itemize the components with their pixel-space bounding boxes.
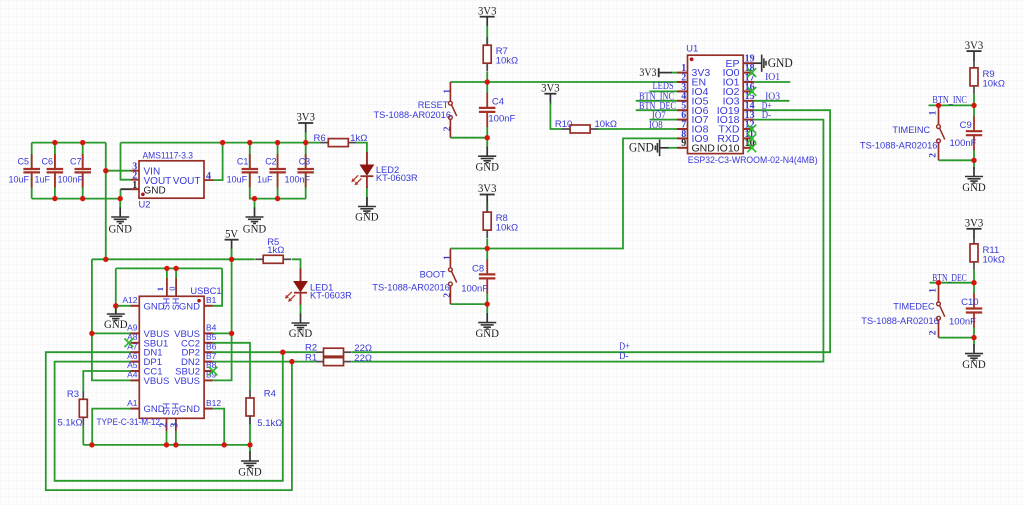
svg-text:A1: A1 <box>127 398 138 408</box>
svg-text:1uF: 1uF <box>257 175 273 185</box>
svg-text:10kΩ: 10kΩ <box>496 56 518 67</box>
svg-text:B9: B9 <box>206 370 217 380</box>
svg-text:B1: B1 <box>206 295 217 305</box>
svg-text:GND: GND <box>289 326 313 340</box>
svg-text:GND: GND <box>179 404 200 415</box>
svg-text:TS-1088-AR02016: TS-1088-AR02016 <box>372 283 450 293</box>
svg-text:ESP32-C3-WROOM-02-N4(4MB): ESP32-C3-WROOM-02-N4(4MB) <box>688 155 818 166</box>
svg-text:1: 1 <box>928 288 938 293</box>
svg-text:2: 2 <box>443 126 453 131</box>
svg-text:10kΩ: 10kΩ <box>595 119 617 130</box>
svg-text:AMS1117-3.3: AMS1117-3.3 <box>143 149 194 160</box>
svg-text:GND: GND <box>238 465 262 479</box>
svg-text:A4: A4 <box>127 370 138 380</box>
svg-text:R10: R10 <box>555 119 572 130</box>
svg-text:9: 9 <box>681 138 686 149</box>
svg-text:1: 1 <box>132 180 137 191</box>
svg-text:TS-1088-AR02016: TS-1088-AR02016 <box>861 316 939 326</box>
svg-text:C6: C6 <box>42 156 54 166</box>
svg-text:GND: GND <box>475 326 499 340</box>
svg-text:GND: GND <box>243 222 267 236</box>
svg-text:GND: GND <box>768 56 793 70</box>
svg-text:TS-1088-AR02016: TS-1088-AR02016 <box>860 141 938 151</box>
svg-text:TIMEDEC: TIMEDEC <box>893 302 935 312</box>
svg-text:IO8: IO8 <box>649 120 663 131</box>
svg-text:10uF: 10uF <box>227 175 248 185</box>
svg-text:A12: A12 <box>122 295 137 305</box>
svg-text:1: 1 <box>155 287 165 291</box>
svg-text:TS-1088-AR02016: TS-1088-AR02016 <box>374 110 452 120</box>
svg-text:LEDS: LEDS <box>653 81 674 92</box>
svg-text:100nF: 100nF <box>488 113 515 124</box>
svg-text:3V3: 3V3 <box>639 65 656 79</box>
svg-text:TIMEINC: TIMEINC <box>892 125 930 135</box>
svg-text:VBUS: VBUS <box>174 376 200 387</box>
svg-text:U1: U1 <box>686 43 698 54</box>
svg-text:2: 2 <box>159 423 170 428</box>
svg-text:C7: C7 <box>70 156 82 166</box>
svg-text:D-: D- <box>762 110 772 121</box>
svg-text:GND: GND <box>104 317 128 331</box>
svg-text:GND: GND <box>355 210 379 224</box>
svg-text:D-: D- <box>619 351 629 362</box>
svg-text:KT-0603R: KT-0603R <box>376 173 418 183</box>
svg-text:3V3: 3V3 <box>478 3 497 17</box>
svg-text:C9: C9 <box>960 120 972 131</box>
svg-text:C3: C3 <box>299 156 311 166</box>
svg-text:3: 3 <box>170 423 181 428</box>
svg-text:100nF: 100nF <box>950 138 977 149</box>
svg-text:VBUS: VBUS <box>144 376 170 387</box>
svg-text:GND: GND <box>108 222 132 236</box>
svg-text:KT-0603R: KT-0603R <box>310 291 352 301</box>
svg-text:2: 2 <box>443 293 453 298</box>
svg-text:10kΩ: 10kΩ <box>983 78 1005 89</box>
svg-text:100nF: 100nF <box>285 175 311 185</box>
svg-text:B12: B12 <box>206 398 221 408</box>
svg-text:C10: C10 <box>961 297 978 308</box>
svg-text:GND: GND <box>144 185 166 196</box>
svg-text:C2: C2 <box>265 156 277 166</box>
svg-text:RESET: RESET <box>418 100 449 110</box>
svg-text:10kΩ: 10kΩ <box>496 223 518 234</box>
svg-text:1kΩ: 1kΩ <box>350 133 367 144</box>
svg-text:4: 4 <box>206 171 211 182</box>
svg-text:0: 0 <box>167 286 177 290</box>
svg-text:100nF: 100nF <box>461 283 488 294</box>
svg-text:C5: C5 <box>18 156 30 166</box>
svg-text:2: 2 <box>928 330 938 335</box>
svg-text:GND: GND <box>962 357 986 371</box>
svg-text:100nF: 100nF <box>949 317 976 328</box>
svg-text:U2: U2 <box>139 199 151 210</box>
svg-text:3V3: 3V3 <box>965 216 984 230</box>
svg-text:TYPE-C-31-M-12: TYPE-C-31-M-12 <box>97 417 161 427</box>
svg-text:3V3: 3V3 <box>478 181 497 195</box>
svg-text:3V3: 3V3 <box>541 80 560 94</box>
svg-text:3V3: 3V3 <box>965 38 984 52</box>
svg-text:22Ω: 22Ω <box>354 353 372 364</box>
svg-text:R6: R6 <box>314 133 326 144</box>
svg-text:5.1kΩ: 5.1kΩ <box>257 418 282 429</box>
svg-text:BOOT: BOOT <box>420 270 446 280</box>
svg-text:R4: R4 <box>264 389 276 400</box>
svg-text:1kΩ: 1kΩ <box>267 245 284 256</box>
svg-text:10uF: 10uF <box>9 175 30 185</box>
svg-text:GND: GND <box>629 141 654 155</box>
svg-text:GND: GND <box>962 180 986 194</box>
svg-text:C1: C1 <box>237 156 249 166</box>
svg-text:GND: GND <box>179 301 200 312</box>
svg-text:2: 2 <box>928 153 938 158</box>
svg-text:100nF: 100nF <box>58 175 84 185</box>
svg-text:1uF: 1uF <box>35 175 51 185</box>
svg-text:1: 1 <box>443 89 453 94</box>
svg-text:3V3: 3V3 <box>296 110 315 124</box>
svg-text:R1: R1 <box>305 352 317 363</box>
svg-text:IO10: IO10 <box>717 142 740 154</box>
svg-text:5V: 5V <box>225 226 238 240</box>
svg-text:1: 1 <box>928 110 938 115</box>
svg-text:5.1kΩ: 5.1kΩ <box>58 417 83 428</box>
svg-text:GND: GND <box>475 160 499 174</box>
svg-text:C8: C8 <box>472 264 484 275</box>
svg-text:IO1: IO1 <box>765 72 780 83</box>
svg-text:10kΩ: 10kΩ <box>983 254 1005 265</box>
svg-text:USBC1: USBC1 <box>190 285 221 296</box>
svg-text:SH: SH <box>171 298 181 311</box>
svg-text:GND: GND <box>692 142 716 154</box>
svg-text:VOUT: VOUT <box>173 176 201 187</box>
svg-text:1: 1 <box>443 255 453 260</box>
svg-text:R3: R3 <box>67 389 79 400</box>
svg-text:SH: SH <box>171 403 181 416</box>
svg-text:C4: C4 <box>492 97 504 108</box>
